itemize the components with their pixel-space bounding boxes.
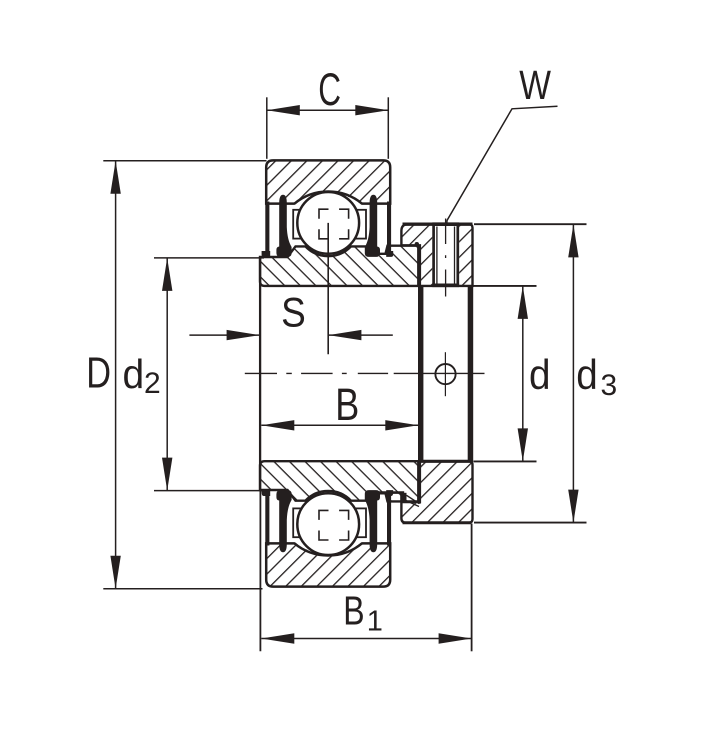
eccentric recess lower <box>372 493 420 507</box>
label W with leader <box>447 62 558 226</box>
collar notch hook <box>415 242 419 247</box>
svg-text:3: 3 <box>600 369 617 402</box>
seal shield lower left <box>262 490 271 545</box>
ball lower <box>297 493 359 555</box>
inner ring collar interface line upper <box>418 245 420 286</box>
dimension D <box>86 161 266 589</box>
svg-text:2: 2 <box>144 367 161 400</box>
seal lip lower left <box>276 490 291 552</box>
dimension B1 <box>260 490 471 651</box>
svg-text:W: W <box>519 62 551 108</box>
outer raceway groove lower <box>294 542 362 556</box>
dimension B <box>261 379 418 431</box>
dimension S <box>189 289 392 340</box>
svg-text:d: d <box>122 352 144 397</box>
inner ring lower section <box>260 461 418 501</box>
locking collar lower <box>401 461 472 522</box>
svg-text:1: 1 <box>367 606 383 638</box>
bore face silhouette left <box>259 257 261 490</box>
inner ring collar interface line lower <box>418 462 420 504</box>
svg-text:d: d <box>529 350 550 398</box>
svg-text:S: S <box>281 289 306 336</box>
cage upper <box>293 210 366 239</box>
bore edge bar left <box>418 286 423 462</box>
outer raceway groove upper <box>294 191 362 205</box>
svg-text:B: B <box>343 588 364 634</box>
ball center mark square upper <box>319 209 349 239</box>
set screw axis centerline <box>445 219 447 297</box>
svg-text:d: d <box>576 350 597 398</box>
dimension C <box>267 65 389 158</box>
side set screw hole circle <box>435 352 455 396</box>
shaft centerline <box>245 372 485 374</box>
seal shield upper right <box>386 202 393 257</box>
ball axis line upper <box>327 223 329 354</box>
outer ring lower section <box>266 543 390 586</box>
dimension d3 <box>474 224 617 522</box>
ball upper <box>297 192 359 254</box>
svg-text:C: C <box>318 65 341 115</box>
bore edge bar right <box>468 286 474 462</box>
dimension d2 <box>122 258 264 491</box>
svg-text:D: D <box>86 348 111 397</box>
set screw W <box>432 224 459 285</box>
seal shield upper left <box>262 202 271 257</box>
outer ring upper section <box>266 160 390 203</box>
locking collar upper <box>401 224 472 286</box>
seal shield lower right <box>386 490 393 545</box>
svg-text:B: B <box>335 379 359 430</box>
ball center mark square lower <box>319 510 349 540</box>
seal lip lower right <box>365 490 380 552</box>
inner ring upper section <box>260 246 418 286</box>
seal lip upper right <box>365 195 380 257</box>
seal lip upper left <box>276 195 291 257</box>
cage lower <box>293 508 366 537</box>
dimension d <box>474 286 551 462</box>
